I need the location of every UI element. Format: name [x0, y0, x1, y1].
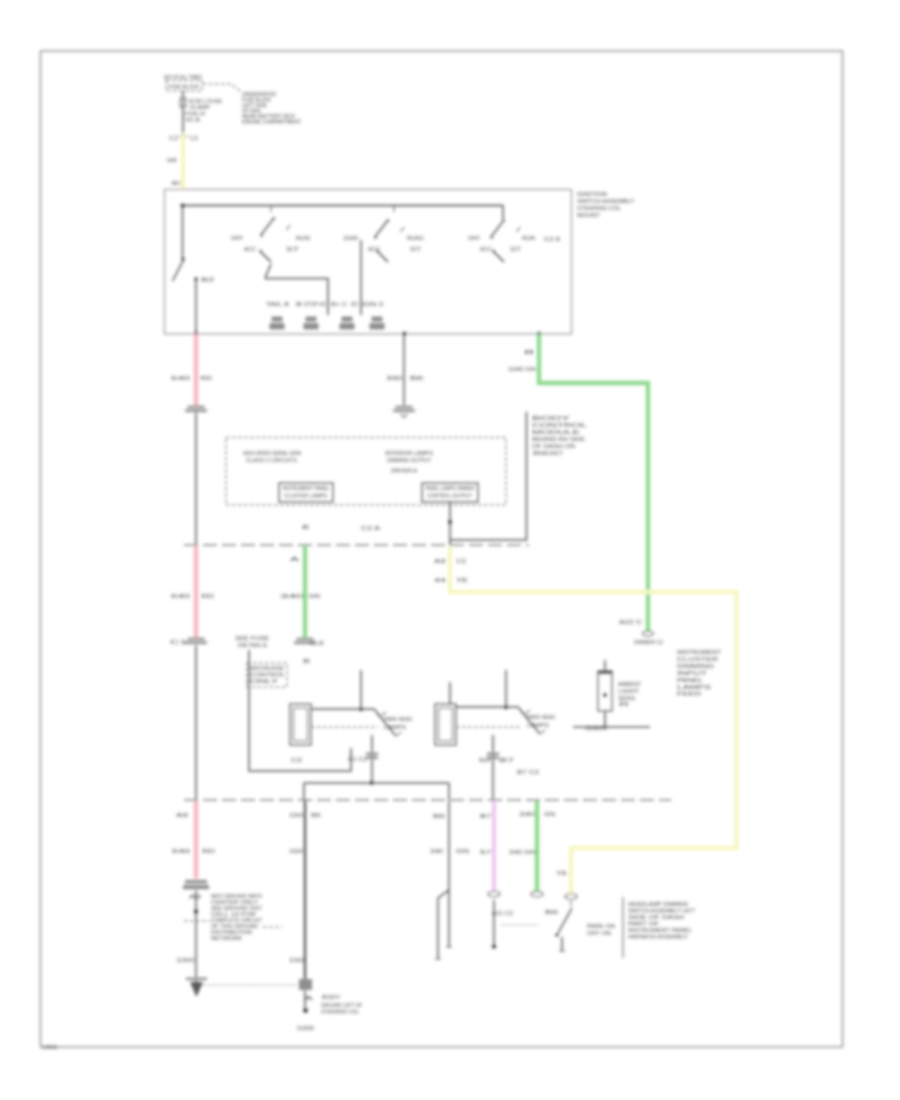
svg-text:PANEL: PANEL [677, 678, 703, 684]
svg-text:BRACKET: BRACKET [533, 451, 564, 457]
svg-text:DETAILS: DETAILS [238, 643, 268, 649]
wiper labels 1 [384, 717, 412, 731]
connector C2 on stub [393, 406, 415, 413]
wire: module pin A down [449, 502, 451, 546]
svg-text:OFF: OFF [468, 236, 480, 242]
svg-text:LIGHT: LIGHT [618, 689, 639, 695]
svg-text:HIGH SPEED SERIAL DATA: HIGH SPEED SERIAL DATA [243, 451, 301, 457]
inline connector on drop 2 [487, 753, 499, 760]
svg-text:GN: GN [308, 594, 321, 600]
connector on green end [294, 638, 316, 645]
svg-text:OFF ON: OFF ON [587, 931, 611, 937]
svg-text:15 AMP: 15 AMP [189, 105, 210, 111]
svg-text:A: A [290, 557, 301, 563]
svg-text:CLASS 2 CIRCUITS: CLASS 2 CIRCUITS [246, 458, 297, 464]
ignition switch box label [577, 192, 634, 219]
svg-text:B: B [303, 659, 311, 665]
wire: bus drop to switch 3 [502, 206, 504, 220]
switch position labels [587, 924, 615, 937]
svg-text:14058: 14058 [42, 1045, 57, 1051]
junction dot at box bottom left [194, 332, 198, 336]
svg-text:BEHIND RH SIDE: BEHIND RH SIDE [532, 437, 585, 443]
leader line to fuse block note [203, 84, 240, 91]
svg-text:PARK HEAD: PARK HEAD [527, 715, 555, 721]
switch group 2 glyphs [343, 206, 424, 263]
svg-text:FUSE BLOCK: FUSE BLOCK [168, 85, 199, 91]
svg-text:B2: B2 [201, 278, 214, 284]
svg-text:DIMMER C2: DIMMER C2 [634, 640, 663, 646]
switch blade S1 [173, 260, 184, 281]
svg-text:A9: A9 [434, 559, 446, 565]
module internal label left [243, 451, 301, 464]
svg-text:DIMMING OUTPUT: DIMMING OUTPUT [387, 458, 432, 464]
junction dot bus/battery [181, 204, 185, 208]
ground labels right [321, 995, 362, 1016]
svg-text:STOP HZ: STOP HZ [304, 302, 326, 308]
resistor R1 body [598, 671, 612, 711]
output terminal labels row [266, 302, 383, 308]
dashed note box on bracket [247, 663, 287, 687]
resistor label [618, 682, 641, 708]
leader to note [184, 920, 210, 922]
wire: bus drop to switch 1 [182, 206, 184, 260]
svg-text:INPUT: INPUT [677, 671, 708, 677]
wire: switch 1 to output row [266, 264, 329, 315]
jumper wire between switches [304, 782, 449, 784]
wire: red ignition feed segment A [194, 334, 198, 406]
svg-text:NETWORK: NETWORK [211, 936, 243, 942]
splice dot S301 [194, 910, 198, 914]
svg-text:BK: BK [311, 813, 322, 819]
svg-text:CONTROL: CONTROL [532, 423, 587, 429]
svg-text:RD: RD [200, 376, 213, 382]
wire: fuse output [182, 91, 184, 134]
dashed tie right [501, 924, 538, 926]
svg-text:B: B [296, 302, 303, 308]
connector C200 separator lower [184, 799, 671, 801]
svg-text:150: 150 [289, 813, 303, 819]
junction dot box bottom right [537, 332, 541, 336]
wire: green segment C [535, 801, 539, 892]
svg-text:STEERING COL: STEERING COL [321, 1010, 359, 1016]
svg-text:SWITCH ASSEMBLY: SWITCH ASSEMBLY [577, 199, 634, 205]
output connector stack 2 [304, 317, 319, 330]
svg-text:OF DASH ON: OF DASH ON [532, 444, 575, 450]
ground rail [573, 726, 650, 728]
svg-text:ST: ST [410, 247, 421, 253]
connector C1 tick [178, 136, 188, 138]
wire: switch 1 output drop [371, 735, 373, 783]
svg-text:A: A [304, 996, 315, 1002]
svg-text:HEADLAMP DIMMER: HEADLAMP DIMMER [628, 902, 688, 908]
module internal label right [385, 451, 433, 475]
switch group 1 glyphs [231, 206, 310, 263]
headlamp switch blade [556, 901, 573, 951]
svg-text:10 A: 10 A [185, 118, 201, 124]
fuse F1 symbol [180, 98, 186, 107]
junction dot [504, 706, 507, 709]
svg-text:8: 8 [524, 350, 535, 356]
svg-text:YE: YE [556, 871, 569, 877]
fuse block location note [242, 92, 302, 126]
svg-text:BODY: BODY [322, 995, 341, 1001]
svg-text:IGN 3: IGN 3 [362, 302, 383, 308]
svg-text:PARK HEAD: PARK HEAD [384, 717, 412, 723]
wire: red segment C [194, 801, 198, 879]
svg-text:C2 A: C2 A [361, 526, 381, 532]
svg-text:ST: ST [286, 247, 299, 253]
wire: below pink connector [493, 900, 495, 944]
wiper labels 2 [527, 715, 555, 729]
note: not used [235, 636, 270, 649]
svg-text:150: 150 [289, 849, 303, 855]
inline connector on red C [183, 880, 209, 889]
svg-text:640: 640 [171, 594, 190, 600]
svg-text:C1: C1 [170, 640, 188, 646]
ground splice dot [303, 1008, 308, 1013]
switch group 3 glyphs [468, 219, 560, 262]
svg-text:MOUNT: MOUNT [577, 213, 601, 219]
svg-text:INTERIOR LAMPS: INTERIOR LAMPS [385, 451, 433, 457]
svg-text:SWITCH ASSEMBLY LEFT: SWITCH ASSEMBLY LEFT [628, 909, 696, 915]
module sub-block 1 [279, 483, 333, 502]
wire: gray continuation down left [195, 645, 197, 800]
svg-text:PARK ON: PARK ON [587, 924, 615, 930]
svg-text:FEED: FEED [677, 692, 701, 698]
wire: green accessory feed [539, 334, 648, 632]
connector at pink end [488, 891, 500, 897]
fork split to twin leads [435, 890, 452, 959]
connector at green C end [531, 891, 543, 897]
bracket for switch label [622, 897, 624, 958]
svg-text:INSTRUMENT PANEL: INSTRUMENT PANEL [628, 928, 692, 934]
open end marker on stub [401, 414, 408, 418]
svg-text:IGNITION: IGNITION [577, 192, 607, 198]
svg-text:G305: G305 [297, 1026, 314, 1032]
dashed wiper track 2 [456, 726, 522, 728]
wire: bracket down to dimmer switch [249, 650, 351, 771]
resistor feed wire [604, 660, 606, 671]
svg-text:C2: C2 [309, 641, 324, 647]
svg-text:A9: A9 [189, 895, 201, 901]
svg-text:D: D [351, 302, 359, 308]
svg-text:C1 C2: C1 C2 [348, 757, 367, 763]
wire: yellow dimming signal [450, 547, 737, 894]
wiper arm 2 [521, 710, 545, 734]
svg-text:C2: C2 [190, 136, 198, 142]
wire: gray bottom left [195, 890, 197, 982]
output connector stack 3 [340, 317, 355, 330]
terminal dot [492, 945, 496, 949]
svg-text:B6: B6 [545, 910, 558, 916]
wire: yellow battery feed [181, 134, 185, 190]
wire: entry into switch 2 [449, 682, 451, 704]
svg-text:340: 340 [430, 849, 443, 855]
svg-text:B: B [302, 525, 310, 531]
svg-text:1040 GN: 1040 GN [508, 367, 537, 373]
svg-text:B+ C: B+ C [331, 302, 348, 308]
svg-text:150: 150 [176, 958, 194, 964]
wire: pink dimmer lead [492, 801, 496, 891]
connector at green wire end [643, 631, 654, 636]
svg-text:PANEL LAMPS DIMMER: PANEL LAMPS DIMMER [426, 486, 475, 492]
svg-text:LAMPS: LAMPS [384, 725, 407, 731]
fuse block dashed outline [166, 81, 202, 92]
terminal box at ground [299, 979, 312, 990]
dimmer switch 1 connector body [290, 704, 311, 745]
svg-text:640: 640 [167, 158, 177, 164]
svg-text:DRIVER A: DRIVER A [391, 469, 417, 475]
svg-text:LAMPS: LAMPS [527, 723, 550, 729]
svg-text:640: 640 [172, 849, 190, 855]
wire: switch 1 top contact [311, 709, 379, 715]
wire: feed into switch 1 [360, 670, 362, 711]
wire: column at 449 below jumper [448, 801, 450, 890]
connector at yellow end [565, 894, 577, 900]
svg-text:ONLY: ONLY [250, 679, 279, 685]
wire: red segment B [194, 546, 198, 639]
svg-text:CONTROL OUTPUT: CONTROL OUTPUT [427, 494, 472, 500]
svg-text:640: 640 [171, 376, 190, 382]
svg-text:R: R [619, 702, 630, 708]
junction dot box bottom mid [403, 332, 407, 336]
component label: instrument cluster [677, 650, 722, 698]
svg-text:STEERING COL: STEERING COL [577, 206, 621, 212]
wire: switch 2 output drop [492, 735, 494, 800]
splice dot on pin A [448, 520, 452, 524]
svg-text:340 GN: 340 GN [509, 850, 537, 856]
junction dot [359, 708, 362, 711]
module name label [532, 416, 587, 457]
svg-text:ENGINE COMPARTMENT: ENGINE COMPARTMENT [242, 120, 302, 126]
svg-text:DIMMING: DIMMING [677, 664, 714, 670]
svg-text:MODULE: MODULE [532, 430, 581, 436]
bus wire inside switch box [182, 205, 503, 207]
svg-text:TAIL A: TAIL A [266, 302, 290, 308]
svg-text:G305: G305 [585, 726, 607, 732]
svg-text:BODY: BODY [532, 416, 571, 422]
svg-text:A11 C2: A11 C2 [492, 911, 513, 917]
svg-text:ACC: ACC [368, 247, 380, 253]
svg-text:840: 840 [387, 376, 402, 382]
svg-text:AMBIENT: AMBIENT [618, 682, 641, 688]
note block: courtesy lamps [211, 894, 262, 942]
ignition switch box [165, 190, 572, 335]
svg-text:B7 C2: B7 C2 [517, 770, 539, 776]
headlamp switch label [628, 902, 696, 941]
wire: switch output down [195, 279, 197, 334]
svg-text:50: 50 [479, 758, 490, 764]
junction dot on jumper [370, 781, 374, 785]
svg-text:GN: GN [544, 812, 556, 818]
svg-text:ACC: ACC [244, 247, 256, 253]
svg-text:RUN: RUN [296, 236, 310, 242]
svg-text:W/CRUISE: W/CRUISE [250, 666, 285, 672]
svg-text:INSTRUMENT: INSTRUMENT [677, 650, 722, 656]
svg-text:HARNESS ASSEMBLY: HARNESS ASSEMBLY [628, 935, 688, 941]
connector C200 separator upper [184, 544, 529, 546]
svg-text:SIDE OF DASH: SIDE OF DASH [628, 915, 684, 921]
wiper arm 1 [377, 712, 401, 736]
inline connector on drop 1 [366, 753, 378, 760]
svg-text:LAMPS: LAMPS [677, 685, 712, 691]
connector on red end [185, 638, 207, 645]
output connector stack 1 [270, 317, 285, 330]
wire: resistor to ground rail [604, 711, 606, 727]
svg-text:BK: BK [410, 376, 425, 382]
svg-text:340: 340 [519, 812, 535, 818]
svg-text:C1: C1 [169, 136, 178, 142]
svg-text:RUN1: RUN1 [407, 236, 424, 242]
svg-text:CLUSTER: CLUSTER [677, 657, 718, 663]
svg-text:40: 40 [171, 181, 181, 187]
resistor internal dots [599, 673, 612, 697]
output connector stack 4 [370, 317, 385, 330]
svg-text:A9: A9 [176, 813, 188, 819]
svg-text:CLUSTER LAMPS: CLUSTER LAMPS [284, 494, 328, 500]
wire: switch 2 top contact [456, 707, 523, 713]
wire: box to splice [304, 990, 306, 1008]
svg-text:SEE FUSE: SEE FUSE [235, 636, 270, 642]
connector C100 on red wire [185, 406, 207, 413]
svg-text:B7: B7 [480, 814, 492, 820]
body control module dashed box [226, 438, 506, 506]
wire: gray continuation to module [195, 412, 197, 545]
svg-text:B7: B7 [499, 758, 515, 764]
svg-text:GROUND LEFT OF: GROUND LEFT OF [321, 1003, 362, 1009]
svg-text:OFF: OFF [231, 236, 243, 242]
svg-text:INSTRUMENT PANEL: INSTRUMENT PANEL [283, 486, 330, 492]
svg-text:1040: 1040 [343, 236, 358, 242]
contact dot [194, 277, 197, 280]
wire: green segment B [303, 546, 307, 639]
dashed wiper track 1 [311, 726, 378, 728]
svg-text:ACC: ACC [480, 247, 492, 253]
wire: main ground drop (thick) [304, 801, 306, 982]
fuse F1 labels [185, 99, 222, 124]
svg-text:340: 340 [280, 594, 305, 600]
svg-text:57: 57 [480, 850, 492, 856]
dimmer switch 2 connector body [435, 704, 456, 745]
svg-text:44: 44 [434, 578, 446, 584]
svg-text:B6: B6 [433, 814, 445, 820]
ground G200 symbol [186, 978, 207, 998]
svg-text:150: 150 [289, 958, 304, 964]
svg-text:PART OF: PART OF [628, 922, 660, 928]
jumper corner drops [303, 783, 305, 800]
svg-text:CONTROL: CONTROL [250, 673, 285, 679]
yellow wire tags upper [434, 559, 469, 584]
svg-text:A22 C: A22 C [619, 620, 643, 626]
svg-text:ST: ST [510, 247, 521, 253]
wire: feed into switch 2 [505, 670, 507, 709]
svg-text:YE: YE [456, 578, 469, 584]
dashed ground tie line [203, 984, 296, 986]
svg-text:GN: GN [456, 849, 470, 855]
svg-text:RD: RD [202, 849, 216, 855]
wire: switch 2 to output row [360, 240, 362, 315]
svg-text:C2: C2 [456, 559, 466, 565]
svg-text:C2 8: C2 8 [544, 237, 560, 243]
module sub-block 2 [422, 483, 478, 502]
svg-text:RD: RD [201, 594, 215, 600]
wire: unused stub [403, 334, 405, 406]
bracket wire to module label [450, 412, 527, 540]
svg-text:C2: C2 [291, 758, 302, 764]
svg-text:RUN: RUN [522, 236, 535, 242]
leader out of note [263, 926, 282, 928]
